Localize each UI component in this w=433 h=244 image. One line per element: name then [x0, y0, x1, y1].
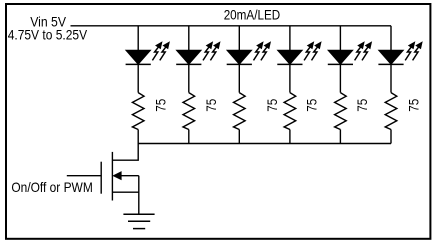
wire source to ground [138, 176, 140, 215]
resistor R5 [335, 93, 347, 130]
LED D1 [126, 50, 151, 64]
svg-text:4.75V to 5.25V: 4.75V to 5.25V [8, 27, 88, 43]
LED D5 [328, 50, 353, 64]
svg-text:75: 75 [264, 99, 280, 112]
wire anode D2 [188, 26, 190, 51]
LED D1 emission arrows [152, 42, 169, 60]
wire D2 cathode to R2 [188, 64, 190, 92]
wire anode D5 [339, 26, 341, 51]
wire R4 to bottom rail [289, 130, 291, 144]
wire anode D4 [289, 26, 291, 51]
LED D6 emission arrows [405, 42, 422, 60]
wire D4 cathode to R4 [289, 64, 291, 92]
wire Vin supply rail [71, 25, 392, 27]
wire anode D3 [238, 26, 240, 51]
wire D3 cathode to R3 [238, 64, 240, 92]
LED D4 [277, 50, 302, 64]
wire R6 to bottom rail [390, 130, 392, 144]
wire anode D6 [390, 26, 392, 51]
wire D6 cathode to R6 [390, 64, 392, 92]
resistor R6 [385, 93, 397, 130]
wire R1 to bottom rail [137, 130, 139, 144]
wire R5 to bottom rail [339, 130, 341, 144]
wire D5 cathode to R5 [339, 64, 341, 92]
LED D5 emission arrows [355, 42, 372, 60]
resistor R1 [132, 93, 144, 130]
wire bottom rail (cathode resistors common) [138, 143, 391, 145]
resistor R3 [234, 93, 246, 130]
wire R3 to bottom rail [238, 130, 240, 144]
svg-text:75: 75 [354, 99, 370, 112]
svg-text:20mA/LED: 20mA/LED [224, 7, 280, 23]
LED D6 [378, 50, 403, 64]
svg-text:75: 75 [203, 99, 219, 112]
wire bottom rail to Q1 drain [112, 144, 138, 161]
LED D4 emission arrows [304, 42, 321, 60]
wire anode D1 [137, 26, 139, 51]
LED D2 emission arrows [203, 42, 220, 60]
wire R2 to bottom rail [188, 130, 190, 144]
svg-text:75: 75 [152, 99, 168, 112]
svg-text:75: 75 [304, 99, 320, 112]
transistor Q1 (N-channel MOSFET) [101, 152, 139, 201]
LED D3 [227, 50, 252, 64]
svg-text:75: 75 [405, 99, 421, 112]
resistor R4 [284, 93, 296, 130]
LED D2 [176, 50, 201, 64]
ground [123, 214, 154, 228]
wire D1 cathode to R1 [137, 64, 139, 92]
wire gate lead [67, 175, 101, 177]
resistor R2 [183, 93, 195, 130]
svg-text:On/Off or PWM: On/Off or PWM [11, 179, 92, 195]
LED D3 emission arrows [254, 42, 271, 60]
